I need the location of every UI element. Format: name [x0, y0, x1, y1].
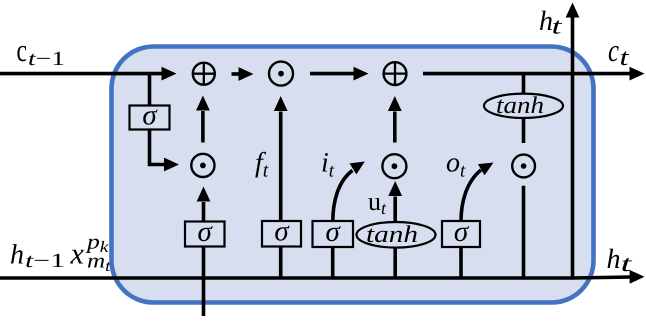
label f_t — [255, 148, 269, 182]
svg-text:x: x — [70, 238, 85, 271]
sigma box B2 — [185, 216, 225, 248]
svg-text:σ: σ — [142, 99, 158, 131]
svg-text:t: t — [621, 251, 633, 276]
label h_{t-1} x^{p_k}_{m_t} — [10, 230, 111, 276]
wire h_t vertical up arrow — [566, 3, 580, 279]
label h_t bottom right — [607, 244, 633, 276]
mult node D2 (circle-dot, left middle) — [191, 154, 214, 177]
wire u line from bottom through tanh with arrow to D3 — [388, 181, 402, 278]
wire c_t output with arrow — [423, 67, 645, 81]
svg-text:c: c — [608, 32, 619, 68]
wire bottom h line with output arrow — [0, 270, 645, 284]
wire sigma B2 up-arrow to D2 — [197, 187, 211, 222]
wire tanh column segments — [522, 75, 526, 278]
label o_t — [446, 148, 466, 182]
add node P1 (circle-plus) — [193, 63, 215, 85]
svg-text:σ: σ — [454, 216, 470, 248]
svg-text:t−1: t−1 — [25, 250, 65, 272]
wire input stub below B2 through bottom line — [202, 247, 206, 317]
svg-text:σ: σ — [326, 216, 342, 248]
wire o line vertical below B5 — [459, 247, 463, 279]
sigma box B4 (i gate) — [313, 216, 354, 248]
add node P2 (circle-plus) — [384, 62, 407, 85]
wire i curved arrow from B4 — [333, 162, 365, 222]
label c_t top right — [608, 32, 630, 71]
svg-text:t−1: t−1 — [28, 48, 65, 70]
svg-text:tanh: tanh — [366, 222, 418, 248]
label u_t — [368, 187, 387, 218]
mult node D1 (circle-dot top) — [269, 62, 293, 86]
wire arrow D2 up to P1 — [196, 96, 210, 143]
svg-text:h: h — [607, 244, 621, 275]
sigma box B1 (top left) — [130, 99, 170, 131]
wire c_{t-1} input with arrow — [0, 67, 177, 81]
wire arrow D3 up to P2 — [388, 96, 402, 143]
wire o curved arrow from B5 — [461, 163, 494, 222]
label h_t top — [539, 6, 562, 39]
svg-text:t: t — [620, 45, 631, 71]
wire long arrow D1 to P2 — [310, 67, 369, 81]
tanh ellipse E2 — [357, 222, 436, 248]
svg-text:t: t — [552, 14, 563, 39]
sigma box B3 (f gate) — [262, 216, 301, 248]
svg-text:σ: σ — [198, 216, 214, 248]
label c_{t-1} — [17, 32, 66, 70]
sigma box B5 (o gate) — [442, 216, 480, 248]
wire short arrow P1 to D1 — [232, 67, 254, 81]
svg-text:h: h — [10, 240, 24, 271]
tanh ellipse E1 — [484, 93, 563, 119]
wire i line vertical below B4 — [331, 247, 335, 279]
label i_t — [321, 148, 335, 182]
mult node D3 (circle-dot, middle) — [382, 154, 406, 178]
LSTM cell body — [112, 47, 594, 303]
svg-text:c: c — [17, 32, 28, 68]
svg-text:σ: σ — [274, 216, 290, 248]
svg-text:tanh: tanh — [496, 93, 544, 119]
wire branch down to sigma and elbow arrow — [150, 74, 180, 172]
wire f line vertical — [274, 96, 288, 278]
mult node D4 (circle-dot, right) — [512, 155, 535, 178]
